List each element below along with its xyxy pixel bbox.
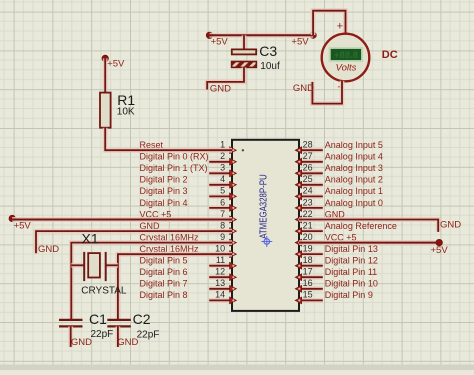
pin 13 (Digital Pin 7) — [140, 278, 237, 292]
svg-text:Analog Input 5: Analog Input 5 — [325, 140, 383, 150]
svg-text:13: 13 — [215, 278, 225, 288]
label CRYSTAL — [81, 286, 127, 297]
IC name label ATMEGA328P-PU — [258, 174, 269, 239]
svg-text:28: 28 — [303, 140, 313, 150]
svg-text:Volts: Volts — [336, 63, 357, 74]
svg-text:Digital Pin 2: Digital Pin 2 — [140, 175, 188, 185]
svg-text:Analog Input 0: Analog Input 0 — [325, 198, 383, 208]
power terminal +5V (rail left) — [206, 32, 228, 48]
pin 15 (Digital Pin 9) — [295, 290, 373, 304]
svg-text:Analog Input 2: Analog Input 2 — [325, 175, 383, 185]
svg-text:Digital Pin 12: Digital Pin 12 — [325, 256, 378, 266]
svg-text:5: 5 — [220, 186, 225, 196]
wire +5V to voltmeter + terminal — [313, 11, 345, 35]
pin 23 (Analog Input 0) — [295, 197, 383, 211]
svg-text:C2: C2 — [133, 311, 151, 327]
svg-text:4: 4 — [220, 174, 225, 184]
label R1 — [117, 92, 135, 108]
svg-text:Analog Input 3: Analog Input 3 — [325, 163, 383, 173]
svg-text:16: 16 — [303, 278, 313, 288]
svg-text:14: 14 — [215, 290, 225, 300]
IC U1 ATMEGA328P-PU body — [232, 140, 299, 311]
pin 1 (Reset) — [140, 140, 237, 154]
label DC — [382, 49, 398, 61]
power terminal +5V (left edge) — [9, 215, 31, 231]
pin 8 (GND) — [140, 220, 237, 234]
pin 14 (Digital Pin 8) — [140, 290, 237, 304]
wire pin 10 to crystal / C2 — [118, 254, 232, 319]
svg-text:6: 6 — [220, 197, 225, 207]
pin 6 (Digital Pin 4) — [140, 197, 237, 211]
power terminal +5V (rail right) — [291, 32, 316, 48]
svg-text:+88.8: +88.8 — [334, 50, 358, 61]
voltmeter body (DC voltmeter) — [322, 34, 370, 82]
svg-text:+5V: +5V — [291, 37, 309, 48]
svg-text:Digital Pin 5: Digital Pin 5 — [140, 256, 188, 266]
wire R1 to Reset pin 1 — [105, 128, 232, 151]
svg-text:26: 26 — [303, 163, 313, 173]
svg-text:Digital Pin 7: Digital Pin 7 — [140, 279, 188, 289]
wire pin 9 to crystal / C1 — [71, 243, 232, 319]
pin 7 (VCC +5) — [140, 209, 237, 223]
svg-text:25: 25 — [303, 174, 313, 184]
wire C3 to ground — [207, 67, 244, 89]
value 10uf — [260, 61, 280, 72]
capacitor C2 — [107, 320, 131, 327]
svg-text:15: 15 — [303, 290, 313, 300]
svg-text:23: 23 — [303, 197, 313, 207]
pin 24 (Analog Input 1) — [295, 186, 383, 200]
label C3 — [259, 43, 277, 59]
pin 9 (Crystal 16MHz) — [140, 232, 237, 246]
pin 28 (Analog Input 5) — [295, 140, 383, 154]
value 22pF (C1) — [91, 329, 114, 340]
voltmeter display — [329, 47, 363, 62]
pin 19 (Digital Pin 13) — [295, 243, 378, 257]
svg-text:10K: 10K — [117, 107, 135, 118]
resistor R1 — [100, 93, 111, 128]
label C2 — [133, 311, 151, 327]
svg-text:10uf: 10uf — [260, 61, 280, 72]
pin 11 (Digital Pin 5) — [140, 255, 237, 269]
power terminal +5V (right) — [431, 239, 449, 255]
pin 16 (Digital Pin 10) — [295, 278, 378, 292]
voltmeter + terminal label — [337, 21, 343, 33]
ground terminal GND (right) — [440, 220, 461, 231]
power terminal +5V (top left, R1) — [102, 55, 125, 69]
value 22pF (C2) — [137, 330, 160, 341]
wire C2 to ground — [116, 326, 121, 347]
svg-text:R1: R1 — [117, 92, 135, 108]
svg-text:Digital Pin 9: Digital Pin 9 — [325, 290, 373, 300]
svg-text:GND: GND — [38, 244, 59, 255]
ground terminal GND (left) — [38, 244, 59, 255]
wire pin 22 GND to terminal — [299, 220, 438, 232]
label C1 — [89, 311, 107, 327]
svg-text:Digital Pin 3: Digital Pin 3 — [140, 186, 188, 196]
svg-text:GND: GND — [293, 83, 314, 94]
svg-text:Analog Input 1: Analog Input 1 — [325, 186, 383, 196]
svg-text:Digital Pin 0 (RX): Digital Pin 0 (RX) — [140, 152, 209, 162]
svg-text:Digital Pin 1 (TX): Digital Pin 1 (TX) — [140, 163, 208, 173]
svg-text:X1: X1 — [82, 231, 99, 247]
pin 21 (Analog Reference) — [295, 220, 397, 234]
pin 17 (Digital Pin 11) — [295, 267, 377, 281]
wire +5V rail to pin 7 VCC — [12, 217, 232, 222]
svg-text:Analog Input 4: Analog Input 4 — [325, 152, 383, 162]
capacitor C1 — [59, 320, 83, 327]
svg-text:+5V: +5V — [14, 221, 32, 232]
voltmeter label Volts — [336, 63, 357, 74]
svg-text:C1: C1 — [89, 311, 107, 327]
pin 25 (Analog Input 2) — [295, 174, 383, 188]
wire +5V top rail — [210, 33, 314, 38]
svg-text:+5V: +5V — [211, 37, 229, 48]
svg-text:ATMEGA328P-PU: ATMEGA328P-PU — [258, 174, 269, 239]
pin 22 (GND) — [295, 209, 345, 223]
svg-text:GND: GND — [440, 220, 461, 231]
wire crystal right stub — [106, 263, 118, 268]
svg-text:+5V: +5V — [107, 59, 125, 70]
svg-text:Analog Reference: Analog Reference — [325, 221, 397, 231]
IC origin crosshair marker — [261, 236, 272, 247]
pin 3 (Digital Pin 1 (TX)) — [140, 163, 237, 177]
voltmeter - terminal label — [337, 82, 343, 94]
svg-text:27: 27 — [303, 151, 313, 161]
svg-text:24: 24 — [303, 186, 313, 196]
pin 20 (VCC +5) — [295, 232, 356, 246]
svg-text:Digital Pin 6: Digital Pin 6 — [140, 267, 188, 277]
value 10K — [117, 107, 135, 118]
wire +5V to R1 — [103, 58, 108, 92]
wire rail to C3 — [242, 35, 247, 49]
pin 1 dot marker — [242, 149, 244, 151]
capacitor C3 (electrolytic) — [232, 49, 257, 67]
svg-text:CRYSTAL: CRYSTAL — [81, 286, 127, 297]
svg-text:+5V: +5V — [431, 245, 449, 256]
svg-text:12: 12 — [215, 267, 225, 277]
svg-text:3: 3 — [220, 163, 225, 173]
ground terminal GND (C3) — [210, 83, 231, 94]
svg-text:Digital Pin 11: Digital Pin 11 — [325, 267, 377, 277]
svg-text:GND: GND — [210, 83, 231, 94]
wire crystal left stub — [71, 263, 84, 268]
crystal X1 — [84, 252, 106, 281]
svg-text:22pF: 22pF — [91, 329, 114, 340]
svg-text:17: 17 — [303, 267, 313, 277]
pin 10 (Crystal 16MHz) — [140, 243, 237, 257]
svg-text:18: 18 — [303, 255, 313, 265]
pin 18 (Digital Pin 12) — [295, 255, 378, 269]
pin 4 (Digital Pin 2) — [140, 174, 237, 188]
svg-text:DC: DC — [382, 49, 398, 61]
bottom window edge strip — [0, 365, 474, 371]
ground terminal GND (voltmeter) — [293, 83, 314, 94]
pin 27 (Analog Input 4) — [295, 151, 383, 165]
label X1 — [82, 231, 99, 247]
svg-text:Digital Pin 13: Digital Pin 13 — [325, 244, 378, 254]
pin 5 (Digital Pin 3) — [140, 186, 237, 200]
svg-text:Digital Pin 10: Digital Pin 10 — [325, 279, 378, 289]
svg-text:Digital Pin 4: Digital Pin 4 — [140, 198, 188, 208]
wire pin 20 VCC to +5V — [299, 240, 439, 245]
wire pin 8 GND — [36, 231, 232, 253]
wire voltmeter - to ground — [312, 81, 342, 104]
svg-text:GND: GND — [71, 337, 92, 348]
pin 12 (Digital Pin 6) — [140, 267, 237, 281]
pin 2 (Digital Pin 0 (RX)) — [140, 151, 237, 165]
svg-text:Digital Pin 8: Digital Pin 8 — [140, 290, 188, 300]
pin 26 (Analog Input 3) — [295, 163, 383, 177]
svg-text:+: + — [337, 21, 343, 33]
svg-text:C3: C3 — [259, 43, 277, 59]
svg-text:22pF: 22pF — [137, 330, 160, 341]
ground terminal GND (C2) — [117, 337, 138, 348]
wire C1 to ground — [68, 326, 73, 347]
svg-text:GND: GND — [117, 337, 138, 348]
ground terminal GND (C1) — [71, 337, 92, 348]
